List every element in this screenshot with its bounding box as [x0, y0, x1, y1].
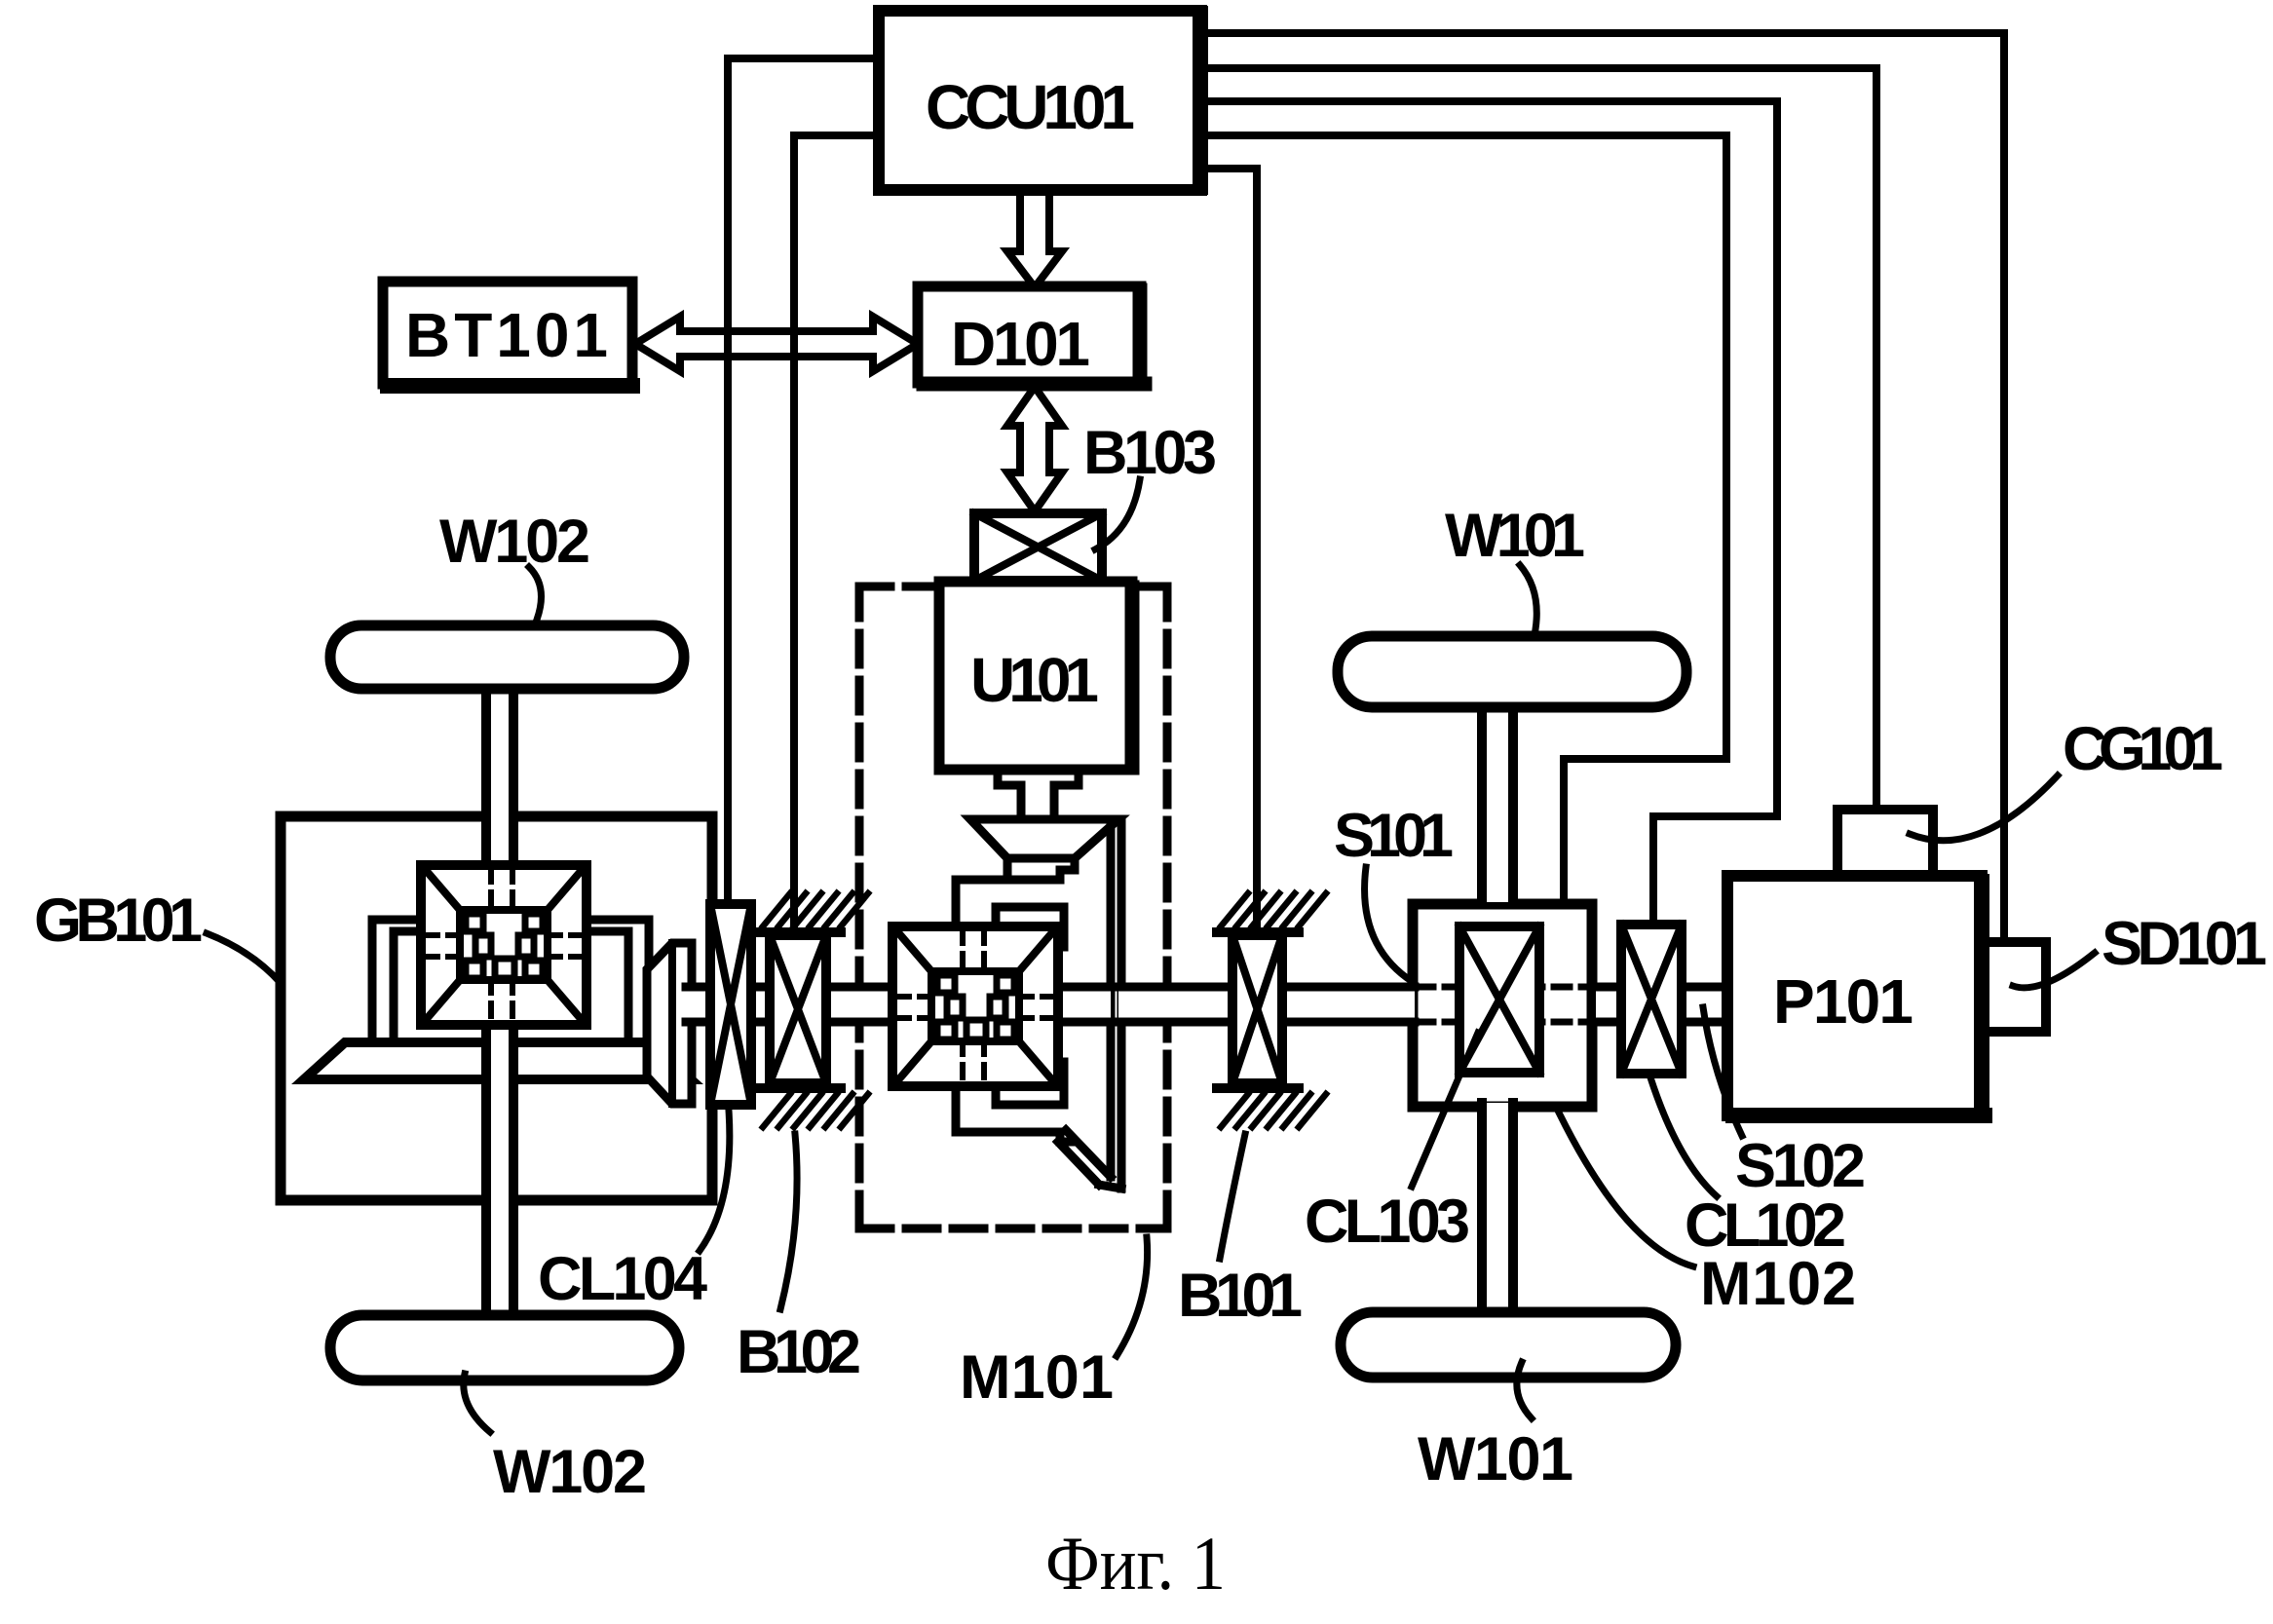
svg-text:S102: S102 [1735, 1132, 1866, 1200]
svg-text:CG101: CG101 [2063, 715, 2223, 783]
svg-text:S101: S101 [1334, 802, 1454, 870]
svg-text:B102: B102 [737, 1318, 861, 1386]
svg-text:W101: W101 [1418, 1425, 1573, 1493]
svg-text:B103: B103 [1083, 419, 1217, 487]
svg-text:D101: D101 [951, 309, 1090, 379]
svg-text:U101: U101 [970, 645, 1099, 715]
svg-text:P101: P101 [1773, 966, 1913, 1037]
svg-text:M101: M101 [960, 1343, 1114, 1412]
svg-text:BT101: BT101 [405, 300, 608, 370]
svg-text:GB101: GB101 [34, 887, 203, 955]
svg-text:M102: M102 [1700, 1250, 1856, 1318]
svg-text:W102: W102 [493, 1438, 647, 1506]
svg-text:B101: B101 [1178, 1262, 1303, 1330]
svg-text:SD101: SD101 [2102, 910, 2267, 978]
svg-text:CL104: CL104 [538, 1245, 707, 1313]
svg-text:Фиг. 1: Фиг. 1 [1045, 1521, 1226, 1605]
svg-text:W101: W101 [1445, 502, 1585, 570]
svg-text:CCU101: CCU101 [926, 72, 1135, 142]
svg-text:W102: W102 [439, 508, 590, 576]
svg-text:CL103: CL103 [1305, 1188, 1470, 1256]
